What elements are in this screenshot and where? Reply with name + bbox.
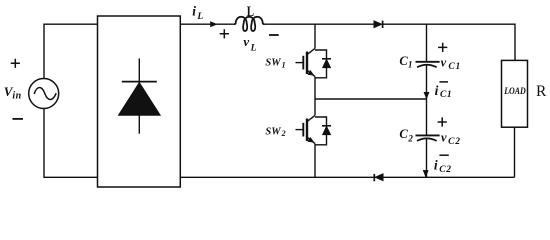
load R box [502, 60, 528, 127]
svg-text:SW: SW [265, 126, 281, 137]
svg-text:L: L [247, 2, 254, 19]
label - (C2 polarity) [439, 154, 448, 156]
svg-text:C2: C2 [448, 137, 461, 147]
label L (inductor) [247, 2, 254, 19]
svg-text:v: v [243, 34, 249, 49]
switch SW2 (IGBT) [296, 115, 316, 143]
wire top rail right [383, 24, 515, 60]
inductor L [234, 17, 264, 31]
svg-text:C: C [399, 127, 408, 141]
label Vin [4, 84, 22, 102]
label SW1 [265, 58, 285, 70]
anti-parallel diode of SW1 [315, 50, 331, 78]
label C2 [399, 127, 413, 144]
svg-text:C2: C2 [439, 165, 451, 175]
bridge rectifier box [98, 16, 181, 187]
svg-text:C1: C1 [448, 62, 461, 72]
label - (inductor polarity) [269, 34, 279, 36]
wire mid rail [315, 98, 427, 100]
svg-text:SW: SW [265, 58, 281, 69]
wire switch leg top [314, 24, 316, 48]
wire switch leg bottom [314, 144, 316, 178]
label vL [243, 34, 256, 54]
wire switch leg middle [314, 77, 316, 116]
label - (C1 polarity) [439, 81, 448, 83]
label C1 [399, 54, 412, 70]
svg-text:i: i [192, 4, 196, 19]
wire bottom rail [180, 176, 514, 178]
svg-text:2: 2 [281, 129, 286, 138]
svg-text:LOAD: LOAD [503, 86, 525, 97]
current arrow iL [211, 22, 217, 27]
current arrow iC1 [424, 92, 429, 98]
source Vin (AC source circle) [29, 79, 59, 109]
capacitor C2 [416, 99, 440, 177]
svg-text:L: L [250, 43, 257, 53]
label iC2 [434, 158, 452, 175]
diode D1 (top rail) [374, 21, 383, 28]
anti-parallel diode of SW2 [315, 117, 331, 145]
svg-text:1: 1 [282, 60, 286, 69]
svg-text:v: v [441, 55, 447, 69]
label + (source polarity) [11, 59, 20, 68]
label iL [192, 4, 203, 22]
svg-text:2: 2 [407, 134, 413, 144]
wire top rail (rectifier to switch leg) [180, 23, 234, 25]
label vC2 [441, 131, 461, 147]
svg-text:i: i [434, 158, 438, 173]
bridge rectifier diode [119, 58, 161, 133]
label + (C2 polarity) [438, 117, 447, 126]
label + (C1 polarity) [438, 43, 447, 52]
current arrow iC2 [423, 170, 428, 176]
label - (source polarity) [13, 118, 24, 120]
label iC1 [435, 83, 453, 100]
wire source bottom [44, 109, 98, 178]
diode D2 (bottom rail) [374, 174, 383, 181]
label + (inductor polarity) [220, 29, 229, 38]
svg-text:v: v [441, 131, 447, 145]
svg-text:in: in [12, 91, 21, 102]
capacitor C1 [416, 24, 440, 99]
switch SW1 (IGBT) [296, 48, 316, 76]
svg-text:1: 1 [408, 59, 413, 69]
svg-text:L: L [196, 12, 203, 22]
wire source top [44, 24, 98, 78]
svg-text:C1: C1 [440, 90, 452, 100]
svg-text:R: R [536, 83, 547, 100]
label vC1 [441, 55, 461, 72]
label SW2 [265, 126, 285, 138]
wire load bottom [514, 127, 516, 177]
svg-text:i: i [435, 83, 439, 98]
